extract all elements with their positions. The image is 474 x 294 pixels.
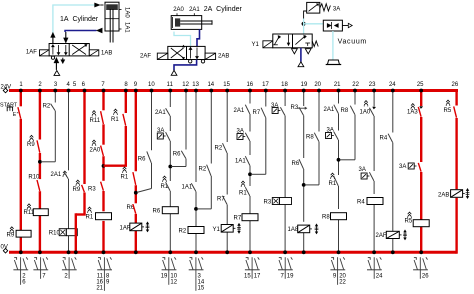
svg-text:R5: R5 [405, 218, 413, 224]
svg-text:R9: R9 [27, 142, 35, 148]
vacuum generator (venturi) [323, 20, 352, 31]
contact 1A1 (NO, open) [182, 183, 196, 191]
svg-text:6: 6 [22, 280, 26, 286]
svg-text:START: START [0, 103, 18, 109]
24V supply rail [9, 89, 458, 92]
rung 13 wire [194, 89, 198, 255]
svg-text:R1: R1 [86, 214, 94, 220]
supply tube of valve 2A (dark blue) [174, 60, 197, 71]
pilot 1AF (left) of valve 1A [26, 50, 49, 56]
relay coil R5 [405, 212, 430, 227]
svg-text:9: 9 [134, 82, 138, 88]
pushbutton START (E) [0, 103, 21, 119]
contact 1A1 (NO, open) [235, 156, 250, 165]
svg-text:1A0: 1A0 [124, 7, 130, 18]
pressure switch contact 3A (open) [157, 128, 170, 141]
svg-text:15: 15 [198, 286, 205, 292]
contact cross-reference table for relay R5 [413, 257, 429, 279]
contact cross-reference table for relay R11 [33, 257, 48, 279]
svg-text:7: 7 [42, 274, 46, 280]
svg-text:5: 5 [73, 82, 77, 88]
svg-text:22: 22 [352, 82, 359, 88]
relay coil R4 [357, 198, 383, 206]
rung 19 wire [302, 89, 306, 255]
svg-text:3A: 3A [399, 164, 406, 170]
rung 2 wire (energized) [38, 89, 42, 255]
tube from cylinder 1A rod end to valve 1A port2 (dark blue) [65, 28, 102, 33]
svg-text:12: 12 [170, 280, 177, 286]
wire from 3A pressure switch to vacuum node [304, 11, 307, 19]
current-path numbers 1-26 [19, 82, 459, 88]
relay coil R7 [234, 214, 259, 222]
contact R4 (NO, open) [380, 134, 393, 143]
pilot 1AB (right) of valve 1A [89, 50, 112, 57]
svg-text:R8: R8 [322, 215, 330, 221]
tube node to vacuum generator (light blue) [303, 19, 305, 35]
svg-text:24: 24 [389, 82, 396, 88]
relay coil R8 [322, 213, 347, 221]
svg-text:R6: R6 [153, 209, 161, 215]
svg-text:2AB: 2AB [218, 54, 229, 60]
relay coil R2 [179, 227, 205, 235]
tube cylinder 2A rod end to valve 2A port2 (dark blue) [197, 29, 200, 46]
cylinder 2A (horizontal, rod right) [171, 6, 242, 29]
valve solenoid 1A8 [288, 224, 319, 234]
svg-text:R3: R3 [264, 200, 272, 206]
svg-text:4: 4 [67, 82, 71, 88]
compressed air supply of valve Y1 (triangle) [298, 62, 304, 67]
svg-text:1A3: 1A3 [407, 110, 418, 116]
contact 2A1 (NO, open) [51, 171, 69, 179]
svg-text:R1: R1 [329, 181, 337, 187]
contact R1 (NO, closed) [121, 167, 136, 185]
limit switch contact 1A0 (NO, open, actuated) [360, 101, 376, 116]
rung 1 wire (energized) [19, 89, 23, 255]
junction node rung19/rung20 [302, 183, 306, 187]
pilot 2AF (left) of valve 2A [140, 53, 168, 59]
svg-text:3: 3 [54, 82, 58, 88]
svg-text:R11: R11 [90, 118, 101, 124]
contact R5 (NO, closed) [444, 100, 457, 118]
svg-text:16: 16 [246, 82, 253, 88]
rung 11 wire [168, 89, 172, 255]
contact cross-reference table for relay R2 [189, 257, 205, 291]
vacuum line node (junction) [302, 22, 306, 26]
svg-text:R6: R6 [138, 157, 146, 163]
contact cross-reference table for relay R9 [13, 257, 28, 285]
svg-text:1AF: 1AF [120, 225, 131, 231]
rung 9 wire (energized) [134, 89, 138, 255]
contact 2A1 (NO, open) [324, 105, 339, 114]
svg-text:6: 6 [82, 82, 86, 88]
pilot 2AB (right) of valve 2A [205, 53, 229, 60]
junction node rung9/rung10 [134, 191, 138, 195]
svg-text:19: 19 [161, 274, 168, 280]
svg-text:2: 2 [38, 82, 42, 88]
supply tube of valve Y1 (dark blue) [300, 48, 302, 62]
relay coil R11 [24, 204, 49, 216]
svg-text:1A1: 1A1 [235, 159, 246, 165]
valve solenoid 2AB [438, 188, 469, 198]
svg-text:R9: R9 [73, 187, 81, 193]
rung 23 wire [372, 89, 376, 255]
svg-text:9: 9 [333, 274, 337, 280]
contact R1 (NO, open) [329, 173, 339, 187]
svg-text:1: 1 [19, 82, 23, 88]
pressure switch contact 3A (closed) [399, 163, 421, 172]
svg-text:R2: R2 [179, 229, 187, 235]
junction node rung2/rung3 [38, 160, 42, 164]
rung 8 wire (energized) with contact R1 [104, 89, 128, 166]
svg-text:3A: 3A [333, 7, 340, 13]
svg-text:19: 19 [287, 274, 294, 280]
svg-text:21: 21 [96, 286, 103, 292]
contact cross-reference table for relay R7 [244, 257, 261, 279]
svg-text:R3: R3 [88, 187, 96, 193]
contact cross-reference table for relay R1 [96, 257, 112, 291]
svg-text:14: 14 [207, 82, 214, 88]
relay coil R1 [86, 207, 112, 220]
svg-text:Vacuum: Vacuum [338, 39, 367, 46]
contact R10 (NO, closed) [28, 175, 40, 191]
valve solenoid Y1 [213, 223, 241, 233]
svg-text:1A8: 1A8 [288, 227, 299, 233]
svg-text:15: 15 [223, 82, 230, 88]
svg-text:R10: R10 [49, 230, 61, 236]
exhaust of valve Y1 (open triangles) [292, 49, 312, 54]
contact R9 (NO, closed) [73, 180, 85, 193]
svg-text:R4: R4 [380, 136, 388, 142]
svg-text:R5: R5 [444, 108, 452, 114]
svg-text:2A1: 2A1 [324, 107, 335, 113]
svg-text:2A1: 2A1 [189, 7, 200, 13]
compressed air supply of valve 1A (triangle) [54, 71, 60, 76]
relay coil R6 [153, 207, 179, 215]
svg-text:12: 12 [182, 82, 189, 88]
svg-text:R9: R9 [7, 233, 15, 239]
exhaust ports of valve 2A (open circles) [189, 60, 205, 63]
junction node rung13/rung14 [194, 207, 198, 211]
contact R6 (NO, closed) [127, 204, 136, 213]
contact cross-reference table for relay R6 [161, 257, 178, 285]
junction node rung16/rung17 [248, 172, 252, 176]
rung 16 wire [248, 89, 252, 255]
rung 20 wire with contact R8 (NO, open) [305, 89, 321, 185]
contact 2A1 (NO, open) [234, 105, 250, 114]
rung 7 wire (energized) [102, 89, 106, 255]
svg-text:1A1: 1A1 [182, 185, 193, 191]
contact R9 (NO, closed) [27, 135, 40, 152]
svg-text:R1: R1 [239, 191, 247, 197]
tube from valve 1A port4 to cylinder 1A cap end (light blue) [53, 3, 104, 34]
svg-text:18: 18 [281, 82, 288, 88]
pressure switch contact 3A (open) [237, 129, 250, 141]
svg-text:2AB: 2AB [438, 192, 449, 198]
rung 18 wire [283, 89, 287, 255]
contact R3 (NC, closed->open) [291, 105, 308, 115]
svg-text:R2: R2 [43, 104, 51, 110]
svg-text:22: 22 [339, 280, 346, 286]
svg-text:R1: R1 [121, 175, 129, 181]
svg-text:17: 17 [262, 82, 269, 88]
tube cylinder 2A cap end to valve 2A port4 (light blue) [174, 32, 191, 47]
junction node rung21/rung22 [337, 158, 341, 162]
contact R11 (NO, closed) [90, 111, 104, 124]
svg-text:R8: R8 [341, 108, 349, 114]
svg-text:11: 11 [167, 82, 174, 88]
svg-text:2A0: 2A0 [173, 7, 184, 13]
rung 12 wire with contact R6 (NO, open) [171, 89, 188, 167]
svg-text:19: 19 [301, 82, 308, 88]
svg-text:2A0: 2A0 [90, 148, 101, 154]
relay coil R9 [7, 227, 32, 239]
svg-text:R8: R8 [306, 135, 314, 141]
svg-text:7: 7 [280, 274, 284, 280]
svg-text:2AF: 2AF [376, 233, 387, 239]
0V supply rail [9, 251, 457, 254]
contact R3 (NO, closed) [88, 182, 103, 193]
junction node rung11/rung12 [168, 165, 172, 169]
svg-text:3A: 3A [359, 167, 366, 173]
rung 25 wire (energized) [419, 89, 423, 255]
rung 22 wire with contact R8 (NO, open) [340, 89, 357, 160]
valve solenoid 1AF [120, 222, 150, 232]
pressure switch 3A (top right) [307, 2, 341, 13]
svg-text:2A1: 2A1 [155, 110, 166, 116]
svg-text:1A Cylinder: 1A Cylinder [60, 16, 99, 23]
svg-text:2: 2 [64, 274, 68, 280]
rung 24 wire [391, 89, 395, 255]
suction cup [326, 60, 342, 65]
contact R7 (NO, open) [217, 196, 227, 205]
rung 10 wire with contact R6 (NO, open) [137, 89, 153, 193]
svg-text:1AB: 1AB [101, 51, 112, 57]
flow arrow valve 1A port4 (up) [51, 32, 56, 43]
svg-text:R6: R6 [173, 152, 181, 158]
rung 15 wire [225, 89, 229, 255]
pressure switch contact 3A (open) [326, 128, 339, 140]
svg-text:26: 26 [422, 274, 429, 280]
valve solenoid 2AF [376, 230, 407, 240]
rung 21 wire [337, 89, 341, 255]
flow arrow valve 1A port2 (down) [63, 32, 68, 43]
svg-text:25: 25 [417, 82, 424, 88]
cylinder 1A (vertical, rod down) [60, 2, 122, 42]
compressed air supply of valve 2A (triangle) [171, 70, 177, 75]
5/2-way valve 1A body [49, 44, 89, 56]
contact 2A1 (NO, open) [155, 108, 170, 116]
svg-text:R1: R1 [111, 117, 119, 123]
svg-text:13: 13 [192, 82, 199, 88]
svg-text:20: 20 [314, 82, 321, 88]
svg-text:R6: R6 [292, 161, 300, 167]
svg-text:21: 21 [334, 82, 341, 88]
24V terminal [1, 85, 12, 93]
pressure switch contact 3A (open) [359, 167, 374, 181]
relay coil R3 (with off-delay) [264, 198, 292, 206]
svg-text:9: 9 [106, 280, 110, 286]
svg-text:23: 23 [369, 82, 376, 88]
svg-text:2A1: 2A1 [51, 172, 62, 178]
svg-text:10: 10 [148, 82, 155, 88]
flow arrow valve 1A exhaust (down) [61, 58, 65, 64]
contact cross-reference table for relay R3 [278, 257, 294, 279]
svg-text:R7: R7 [253, 110, 261, 116]
contact R2 (NO, open) [215, 143, 228, 153]
3/2-way valve Y1 [252, 34, 319, 48]
contact R1 (NO, open) [239, 181, 250, 196]
5/2-way valve 2A body [168, 45, 205, 60]
rung 17 wire with contact R7 (NO, open) [251, 89, 268, 175]
svg-text:8: 8 [124, 82, 128, 88]
contact 2A0 (NO, closed) [90, 140, 104, 156]
svg-text:Y1: Y1 [213, 227, 221, 233]
0V terminal [1, 245, 8, 254]
svg-text:R4: R4 [357, 200, 365, 206]
svg-text:24: 24 [376, 274, 383, 280]
exhaust port of valve 1A (open circle) [51, 56, 54, 59]
contact cross-reference table for relay R8 [330, 257, 346, 285]
limit switch contact 1A3 (NO, closed) [407, 104, 423, 117]
svg-text:7: 7 [101, 82, 105, 88]
svg-text:17: 17 [254, 274, 261, 280]
rung 26 wire (energized) [455, 89, 457, 254]
svg-text:E: E [13, 112, 17, 118]
svg-text:R2: R2 [215, 146, 223, 152]
junction node rung7/rung8 [102, 164, 106, 168]
relay coil R10 (with off-delay) [49, 229, 78, 237]
rung 6 wire (energized) with jog to 0V rail [74, 89, 87, 255]
svg-text:2A1: 2A1 [234, 108, 245, 114]
rung 4 wire [67, 89, 71, 255]
contact R6 (NO, open) [292, 159, 304, 169]
svg-text:26: 26 [452, 82, 459, 88]
svg-text:15: 15 [244, 274, 251, 280]
svg-text:2A Cylinder: 2A Cylinder [204, 6, 243, 13]
svg-text:R10: R10 [28, 175, 40, 181]
svg-text:1AF: 1AF [26, 50, 37, 56]
svg-text:R7: R7 [234, 216, 242, 222]
rung 3 wire with contact R2 (NO, open) [41, 89, 57, 162]
svg-text:1A1: 1A1 [124, 22, 130, 33]
contact cross-reference table for relay R4 [367, 257, 383, 279]
svg-text:R2: R2 [199, 167, 207, 173]
tube vacuum generator to suction cup (light blue) [332, 31, 334, 60]
contact R1 (NO, open) [161, 176, 171, 191]
flow arrow into valve 1A supply (up) [54, 57, 59, 70]
svg-text:1A0: 1A0 [360, 110, 371, 116]
svg-text:2AF: 2AF [140, 54, 151, 60]
rung 14 wire with contact R2 (NO, open) [197, 89, 213, 209]
contact cross-reference table for relay R10 [62, 257, 77, 279]
pressure switch contact 3A (open) [271, 103, 285, 115]
svg-text:Y1: Y1 [252, 42, 260, 48]
